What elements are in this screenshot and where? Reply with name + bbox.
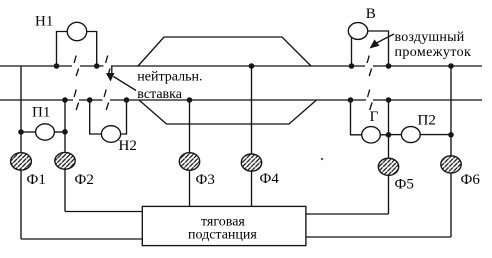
feeder circles (hatched) xyxy=(11,152,462,175)
node: P2 right junction xyxy=(448,132,454,138)
feeder F3 xyxy=(179,153,199,171)
feeder F2 xyxy=(55,152,75,169)
wire: top contact line L1 segment left xyxy=(0,65,72,67)
neutral insert overlap wire (top trapezoid) xyxy=(138,37,311,66)
svg-text:Ф3: Ф3 xyxy=(196,172,215,188)
feeder F1 xyxy=(11,153,32,170)
node: H1 left on L1 xyxy=(54,63,60,69)
insulator gap slashes on L2 at x=76 xyxy=(74,90,79,110)
svg-text:П2: П2 xyxy=(418,113,436,129)
svg-text:вставка: вставка xyxy=(137,87,182,102)
svg-text:Г: Г xyxy=(370,109,379,125)
disconnector H2 bracket xyxy=(90,100,102,134)
wire: feeder drop V6 to F4 xyxy=(251,66,253,154)
svg-text:нейтральн.: нейтральн. xyxy=(137,69,202,84)
wire: G to F5 drop junction xyxy=(380,134,388,136)
node: P1 left xyxy=(18,129,24,135)
svg-text:Ф5: Ф5 xyxy=(395,177,414,193)
node: P1 right xyxy=(62,129,68,135)
arrowhead for neutral insert label xyxy=(106,73,115,82)
neutral insert overlap wire (bottom trapezoid) xyxy=(139,100,317,124)
insulator gap slashes on L2 at x=369.5 xyxy=(368,90,373,110)
wire: L1 long middle segment xyxy=(111,65,365,67)
svg-text:Ф1: Ф1 xyxy=(27,172,46,188)
switch P2 circle xyxy=(401,127,420,143)
insulator gap slashes on L1 at x=107.5 xyxy=(106,56,111,76)
feeder F6 xyxy=(441,156,461,173)
switch B circle xyxy=(348,23,367,40)
svg-text:промежуток: промежуток xyxy=(395,45,472,60)
switch G circle xyxy=(362,127,381,143)
svg-text:Ф4: Ф4 xyxy=(260,171,280,187)
node: B right on L1 xyxy=(386,63,392,69)
node: F2 tap on L2 xyxy=(62,97,68,103)
svg-text:Н2: Н2 xyxy=(119,138,137,154)
wire: L1 segment between gaps xyxy=(80,65,104,67)
node: F6 tap on L1 xyxy=(448,63,454,69)
wire: feeder drop V9 to F6 xyxy=(450,66,452,156)
insulator gap slashes on L1 at x=76 xyxy=(74,56,79,76)
insulator gap slashes on L1 at x=369 xyxy=(367,56,372,76)
svg-text:Ф2: Ф2 xyxy=(75,172,94,188)
node: F5 tap on L2 xyxy=(386,97,392,103)
switch P1 circle xyxy=(36,124,55,140)
disconnector H1 circle xyxy=(67,22,86,40)
svg-text:воздушный: воздушный xyxy=(395,30,465,45)
node: H2 right on L2 xyxy=(124,97,130,103)
wire: L2 segment between gaps xyxy=(79,99,103,101)
wire: switch G left leg xyxy=(351,100,362,135)
node: H2 left on L2 xyxy=(87,97,93,103)
wire: P2 connections xyxy=(389,134,402,136)
svg-text:Ф6: Ф6 xyxy=(461,172,481,188)
wire: L1 right segment xyxy=(373,65,482,67)
wire: second contact line L2 segment left xyxy=(0,99,73,101)
wire: feeder drop V2 to F2 xyxy=(64,100,66,152)
feeder F4 xyxy=(241,154,261,171)
feeder F5 xyxy=(378,158,398,175)
stray speck xyxy=(321,158,323,160)
arrowhead for air gap label xyxy=(370,40,380,49)
wire: feeder drop V8 to F5 xyxy=(388,100,390,158)
svg-text:П1: П1 xyxy=(32,105,50,121)
svg-text:Н1: Н1 xyxy=(35,14,53,30)
svg-text:подстанция: подстанция xyxy=(188,228,257,243)
wire: feeder drop V5 to F3 xyxy=(189,100,191,153)
node: G/P2 junction xyxy=(386,132,392,138)
wire: P1 connections xyxy=(21,131,36,133)
wire: L2 long middle segment xyxy=(110,99,366,101)
substation box xyxy=(142,206,306,245)
label line to neutral insert text xyxy=(114,77,137,91)
disconnector H2 circle xyxy=(101,126,120,143)
switch B bracket xyxy=(351,38,353,66)
svg-text:В: В xyxy=(366,6,376,22)
node: G left on L2 xyxy=(348,97,354,103)
node: B left on L1 xyxy=(349,63,355,69)
node: F3 tap on L2 xyxy=(187,97,193,103)
wire: feeder drop V1 to F1 xyxy=(20,66,22,153)
node: F4 tap on L1 xyxy=(249,63,255,69)
disconnector H1 bracket xyxy=(57,32,68,67)
node: H1 right on L1 xyxy=(94,63,100,69)
insulator gap slashes on L2 at x=106 xyxy=(104,90,109,110)
wire: L2 right segment xyxy=(373,99,482,101)
label line to air gap text xyxy=(376,34,395,44)
